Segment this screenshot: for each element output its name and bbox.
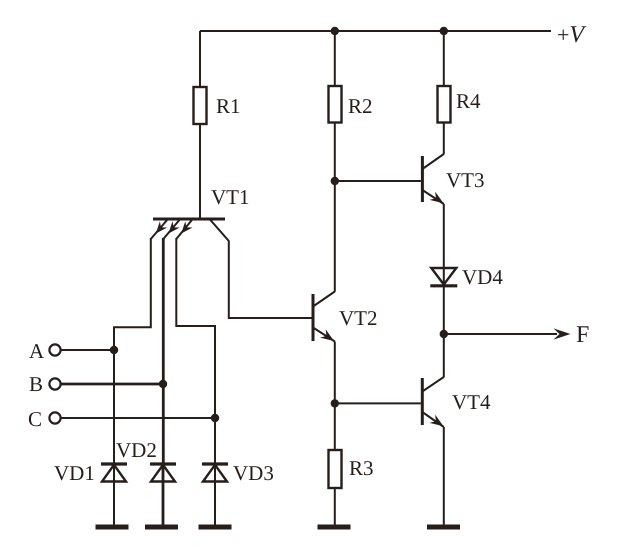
wire R3 to ground	[334, 488, 336, 525]
svg-text:VT4: VT4	[452, 390, 491, 414]
wire R2 to VT2 collector	[334, 123, 336, 292]
diode VD1	[101, 464, 127, 482]
ground under VD3	[199, 525, 232, 530]
wire VT4 emitter to ground	[443, 427, 445, 525]
wire rail to R4	[443, 31, 445, 86]
node junction B	[159, 380, 167, 388]
resistor R3	[329, 450, 342, 488]
transistor VT4	[422, 377, 444, 427]
transistor VT1 (multi-emitter)	[151, 219, 312, 318]
wire rail to R1	[199, 31, 201, 87]
wire VD2 to ground	[162, 463, 165, 525]
arrow VT3 emitter	[430, 192, 444, 204]
wire VT2 emitter down	[334, 342, 336, 404]
node junction VT2 emitter / R3 / VT4 base	[331, 399, 339, 407]
node junction A	[110, 346, 118, 354]
wire VT1 emitter1 to input A column	[114, 238, 151, 463]
wire input A	[61, 349, 114, 351]
resistor R4	[438, 86, 451, 123]
svg-text:R3: R3	[349, 456, 374, 480]
node junction rail-R4	[440, 27, 448, 35]
wire VT4 collector to output	[443, 334, 445, 377]
diode VD2	[150, 464, 176, 482]
node junction rail-R2	[331, 27, 339, 35]
wire junction to R3	[334, 403, 336, 450]
node output junction F	[440, 330, 448, 338]
arrow output F	[554, 328, 571, 339]
wire to VT4 base	[335, 402, 421, 404]
svg-text:C: C	[28, 407, 42, 431]
node junction C	[211, 414, 219, 422]
wire VT1 emitter3 to input C column	[176, 238, 215, 463]
svg-text:VD4: VD4	[462, 265, 503, 289]
input terminal C	[49, 412, 60, 423]
ground under R3	[318, 525, 351, 530]
input terminal B	[49, 378, 60, 389]
wire VD1 to ground	[113, 463, 115, 525]
ground under VT4	[427, 525, 460, 530]
svg-text:F: F	[576, 322, 589, 348]
wire rail to R2	[334, 31, 336, 86]
svg-text:VD1: VD1	[54, 461, 95, 485]
ground under VD2	[145, 525, 178, 530]
transistor VT3	[422, 154, 443, 204]
svg-text:R4: R4	[456, 89, 481, 113]
node junction R2/VT3 base	[331, 177, 339, 185]
resistor R1	[194, 87, 207, 124]
transistor VT2	[313, 292, 335, 342]
wire input B	[61, 383, 163, 386]
arrow VT2 emitter	[320, 329, 334, 341]
wire R1 to VT1 base	[199, 124, 201, 218]
svg-text:VT1: VT1	[211, 185, 250, 209]
svg-text:A: A	[29, 339, 45, 363]
wire to VT3 base	[335, 180, 421, 182]
arrow VT1 emitter 3	[181, 221, 192, 233]
svg-text:B: B	[29, 372, 43, 396]
svg-text:VT2: VT2	[339, 306, 378, 330]
diode VD4	[430, 268, 457, 286]
ground under VD1	[96, 525, 129, 530]
wire VD3 to ground	[214, 463, 216, 525]
svg-text:VT3: VT3	[446, 168, 485, 192]
wire R4 to VT3 collector	[443, 123, 445, 155]
diode VD3	[202, 464, 228, 482]
wire +V supply rail	[200, 30, 551, 32]
wire output to F arrow	[444, 333, 557, 335]
resistor R2	[329, 86, 342, 123]
input terminal A	[49, 344, 60, 355]
arrow VT1 emitter 2	[168, 221, 179, 233]
wire VD4 to output node	[443, 287, 445, 334]
arrow VT1 emitter 1	[156, 221, 167, 233]
wire VT1 emitter2 to input B column	[162, 238, 165, 463]
svg-text:R1: R1	[216, 94, 241, 118]
wire input C	[61, 417, 215, 419]
svg-text:VD2: VD2	[116, 438, 157, 462]
svg-text:+V: +V	[557, 22, 586, 48]
svg-text:R2: R2	[348, 94, 373, 118]
arrow VT4 emitter	[430, 415, 444, 427]
svg-text:VD3: VD3	[233, 461, 274, 485]
wire VT3 emitter to VD4	[443, 204, 445, 285]
